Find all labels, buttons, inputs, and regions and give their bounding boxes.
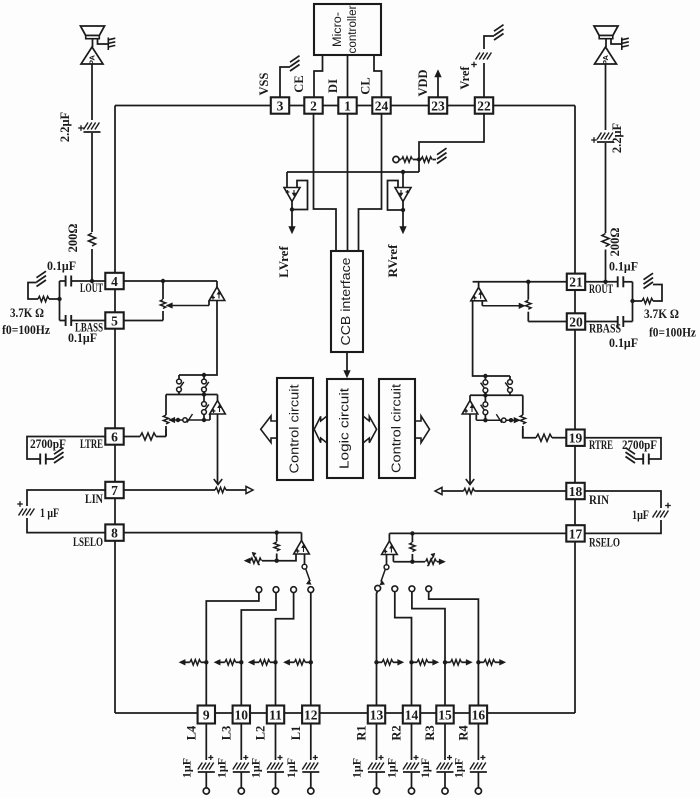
capacitor 1uF left: [19, 509, 24, 516]
junction: [509, 418, 513, 422]
arrow mix: [284, 660, 290, 665]
wire cap to terminal: [240, 772, 242, 788]
ground at 3.7K right: [644, 282, 654, 289]
wire: [509, 376, 511, 380]
wire LVref buffer input stub: [286, 172, 288, 188]
wire: [428, 661, 433, 663]
capacitor 0.1uF ROUT: [617, 276, 619, 287]
wire pin18 to 1uF: [585, 491, 661, 508]
pin 19 RTRE: [566, 430, 584, 446]
contact L4: [256, 587, 262, 593]
svg-text:L3: L3: [219, 726, 233, 741]
capacitor 1uF R1: [368, 763, 373, 770]
wire pin20 to pot right: [528, 321, 567, 323]
wire pin7 to 1uF: [27, 490, 105, 506]
wire op-amp input stub: [216, 281, 218, 287]
junction wiper right: [483, 418, 487, 422]
arrow CCB to logic: [344, 371, 350, 378]
svg-text:7: 7: [111, 483, 118, 498]
wire CL to CCB: [359, 114, 382, 251]
wire cap to terminal: [275, 772, 277, 788]
CCB interface box: [331, 251, 363, 352]
wire: [393, 661, 398, 663]
op-amp LVref buffer: [284, 188, 300, 202]
junction ROUT speaker: [603, 280, 607, 284]
wire top bus: [115, 105, 575, 107]
switch left D: [183, 418, 187, 422]
wire fader out right: [469, 414, 471, 483]
pin 2 CE: [304, 97, 322, 113]
junction LVref output: [290, 207, 294, 211]
arrow RVref: [400, 227, 406, 234]
wire: [165, 429, 167, 437]
op-amp RSELO: [382, 541, 398, 555]
junction: [374, 660, 378, 664]
switch right A: [508, 380, 513, 385]
wire PA to cap right: [605, 64, 607, 130]
switch right D: [502, 418, 506, 422]
wire 1uF to pin17: [585, 520, 661, 533]
contact L3: [273, 587, 279, 593]
wire resistor to ground: [28, 283, 38, 300]
arrow gain left: [245, 558, 251, 563]
pin 23 VDD: [429, 97, 447, 113]
pin 11 L2: [267, 706, 284, 724]
terminal L3: [238, 788, 244, 794]
junction: [239, 660, 243, 664]
wire pin6 to 2700pF: [27, 437, 105, 460]
resistor divider left: [402, 157, 413, 162]
svg-text:Logic circuit: Logic circuit: [337, 388, 352, 469]
pin 12 L1: [302, 706, 319, 724]
svg-text:3.7K Ω: 3.7K Ω: [10, 305, 44, 320]
wire pin19 to 2700pF: [585, 438, 661, 459]
wire pin22 up: [483, 63, 485, 97]
svg-text:20: 20: [569, 314, 583, 329]
contact R3: [409, 586, 415, 592]
wire: [178, 392, 180, 395]
junction: [202, 392, 206, 396]
wire RVref buffer input stub: [402, 172, 404, 188]
micro-controller box U2: [314, 4, 381, 55]
arrow mix right: [500, 660, 506, 665]
pin 16 R4: [470, 706, 487, 724]
block arrow far left: [261, 416, 278, 443]
junction: [410, 531, 414, 535]
wire pot bottom: [162, 311, 164, 321]
op-amp LSELO: [294, 541, 310, 555]
wire cap common right: [632, 282, 634, 322]
wire pin to cap: [477, 724, 479, 761]
svg-text:16: 16: [472, 707, 486, 722]
switch left C: [202, 402, 207, 407]
wiper arrow bass left: [167, 303, 173, 308]
svg-text:1μF: 1μF: [284, 758, 298, 778]
selector switch left: [302, 564, 307, 569]
wiper arrow fader left: [169, 417, 175, 422]
pin 4 LOUT: [105, 273, 123, 289]
svg-text:6: 6: [111, 429, 118, 444]
wire pin22 to divider: [419, 114, 484, 172]
wire wiper to op-amp: [208, 301, 210, 306]
junction buffer R input: [401, 170, 405, 174]
junction: [204, 660, 208, 664]
svg-text:RVref: RVref: [385, 244, 400, 278]
junction switch: [202, 373, 206, 377]
svg-text:19: 19: [569, 431, 583, 446]
wire: [262, 555, 296, 561]
svg-text:0.1μF: 0.1μF: [47, 258, 76, 273]
wire pin5 to pot: [124, 320, 163, 322]
wire pin to cap: [275, 724, 277, 761]
wire pin to cap: [444, 724, 446, 761]
wire: [437, 561, 443, 563]
wire pin20 to cap: [585, 321, 618, 323]
arrow fader left: [214, 479, 222, 485]
arrow mix: [214, 660, 220, 665]
wire LSELO output: [304, 554, 306, 565]
arrow mix right: [466, 660, 472, 665]
wire RVref feedback: [388, 181, 404, 211]
svg-text:18: 18: [569, 484, 583, 499]
junction LOUT speaker: [90, 279, 94, 283]
svg-text:11: 11: [269, 707, 282, 722]
svg-text:LTRE: LTRE: [80, 436, 103, 451]
op-amp RVref buffer: [395, 188, 411, 202]
wire: [203, 395, 205, 403]
wire op-amp out to switches right: [473, 301, 510, 377]
svg-text:LSELO: LSELO: [73, 534, 103, 549]
wire: [495, 661, 500, 663]
wire DI to microcontroller: [347, 55, 349, 98]
resistor mix: [190, 660, 201, 665]
wire CCB to logic: [346, 352, 348, 372]
wire PA to cap: [91, 64, 93, 120]
logic circuit box: [327, 379, 363, 478]
wire cap to terminal: [444, 772, 446, 788]
ground at divider: [437, 157, 447, 164]
plus 2.2uF left: [78, 127, 84, 129]
wire pin to cap: [411, 724, 413, 761]
svg-text:5: 5: [111, 313, 118, 328]
svg-text:CE: CE: [292, 75, 306, 92]
wire: [411, 533, 413, 542]
junction RVref output: [401, 208, 405, 212]
wire: [226, 489, 246, 491]
resistor mix right: [382, 660, 393, 665]
wire: [49, 298, 60, 300]
svg-text:RIN: RIN: [589, 492, 610, 507]
selector switch right: [384, 565, 389, 570]
wire: [60, 320, 66, 322]
wire: [185, 661, 190, 663]
svg-text:1μF: 1μF: [179, 758, 193, 778]
junction pot top right: [526, 280, 530, 284]
wire: [289, 661, 294, 663]
op-amp fader right: [462, 401, 478, 415]
svg-text:L1: L1: [289, 726, 303, 741]
pin 5 LBASS: [105, 312, 123, 328]
wire cap to terminal: [310, 772, 312, 788]
wire pot stub right: [522, 395, 524, 415]
svg-text:2.2μF: 2.2μF: [610, 122, 624, 153]
junction: [483, 393, 487, 397]
wire pin to cap: [376, 724, 378, 761]
ground at right speaker: [621, 38, 623, 51]
svg-text:23: 23: [431, 98, 445, 113]
wire: [484, 415, 486, 421]
speaker left: [81, 26, 105, 36]
potentiometer bass right: [526, 300, 531, 309]
wire: [469, 395, 471, 400]
wire fader out left: [217, 414, 219, 483]
pin 20 RBASS: [567, 313, 585, 329]
junction 3.7K right: [630, 299, 634, 303]
wire: [445, 661, 451, 663]
pin 6 LTRE: [105, 428, 123, 444]
wire cap to pin4: [71, 280, 105, 282]
wire DI to CCB: [347, 114, 349, 251]
terminal L4: [203, 788, 209, 794]
wire cap to terminal: [411, 772, 413, 788]
wire: [484, 395, 486, 402]
resistor mix right: [451, 660, 462, 665]
switch right B: [483, 380, 488, 385]
wire: [305, 661, 311, 663]
svg-text:1: 1: [344, 98, 351, 113]
block arrow logic to left control: [314, 416, 327, 443]
junction pot top: [161, 279, 165, 283]
wire contact to pin9: [206, 592, 259, 704]
wire switch common left: [166, 394, 218, 396]
wire CE to microcontroller: [314, 55, 323, 98]
wire pin21 to cap: [585, 281, 618, 283]
capacitor 1uF L2: [267, 763, 272, 770]
pin 17 RSELO: [566, 525, 584, 541]
wire pin to cap: [205, 724, 207, 761]
potentiometer bass left: [160, 300, 165, 309]
junction divider: [417, 157, 421, 161]
wire: [442, 490, 464, 492]
resistor LSELO: [274, 542, 279, 551]
svg-text:R1: R1: [355, 725, 369, 740]
wire wiper to op-amp right: [481, 301, 483, 306]
pin 18 RIN: [566, 483, 584, 499]
junction: [176, 418, 180, 422]
wire: [165, 426, 167, 437]
capacitor 1uF R2: [403, 763, 408, 770]
arrow gain right: [439, 559, 445, 564]
wire: [509, 392, 511, 395]
wire pin17 to op-amp: [389, 532, 566, 534]
wire: [393, 561, 425, 563]
wire: [392, 555, 394, 562]
contact R2: [392, 586, 398, 592]
resistor mix right: [484, 660, 495, 665]
resistor mix: [225, 660, 236, 665]
wire: [178, 375, 180, 379]
svg-text:1μF: 1μF: [249, 758, 263, 778]
svg-text:0.1μF: 0.1μF: [68, 330, 97, 345]
svg-text:R3: R3: [423, 725, 437, 740]
wire cap to resistor right: [605, 143, 607, 233]
contact L1: [308, 587, 314, 593]
open arrow volume right: [435, 487, 442, 494]
svg-text:f0=100Hz: f0=100Hz: [2, 323, 50, 337]
wire op-amp input stub right: [478, 282, 480, 288]
resistor divider right: [421, 157, 432, 162]
arrow mix: [249, 660, 255, 665]
svg-text:PA: PA: [601, 54, 610, 64]
wire cap to terminal: [205, 772, 207, 788]
resistor mix right: [417, 660, 428, 665]
wire pin8 to op-amp: [124, 532, 302, 534]
wire wiper to fader op-amp right: [475, 415, 477, 421]
svg-text:8: 8: [111, 525, 118, 540]
ground at Vref: [494, 34, 504, 41]
pin 15 R3: [436, 706, 453, 724]
svg-text:Control circuit: Control circuit: [389, 384, 404, 473]
svg-text:0.1μF: 0.1μF: [609, 335, 638, 350]
svg-text:10: 10: [235, 707, 249, 722]
wire cap to terminal: [477, 772, 479, 788]
pin 1 DI: [338, 97, 356, 113]
wire: [220, 661, 225, 663]
wire pot bottom right: [527, 312, 529, 322]
pin 8 LSELO: [105, 524, 123, 540]
capacitor 0.1uF LOUT: [65, 276, 67, 287]
wire cap to pin5: [71, 320, 105, 322]
svg-text:RTRE: RTRE: [589, 437, 613, 452]
resistor mix: [294, 660, 305, 665]
wire pot top: [162, 281, 164, 299]
wire: [433, 159, 437, 161]
arrow mix right: [398, 660, 404, 665]
contact R1: [375, 585, 381, 591]
wire RSELO output: [386, 554, 388, 565]
wire: [246, 560, 250, 562]
wire: [484, 393, 486, 396]
wire CE to CCB: [314, 114, 337, 251]
potentiometer fader right: [520, 415, 525, 424]
open arrow volume left: [246, 486, 253, 493]
svg-text:Control circuit: Control circuit: [287, 384, 302, 473]
pin 13 R1: [368, 706, 385, 724]
svg-text:ROUT: ROUT: [589, 281, 613, 296]
svg-text:PA: PA: [88, 54, 97, 64]
wire pot stub: [165, 395, 167, 416]
svg-text:1μF: 1μF: [418, 758, 432, 778]
svg-text:LVref: LVref: [276, 246, 291, 278]
junction wiper: [202, 418, 206, 422]
svg-text:1μF: 1μF: [451, 758, 465, 778]
contact R4: [426, 586, 432, 592]
capacitor 1uF L3: [233, 763, 238, 770]
pin 9 L4: [198, 706, 215, 724]
contact L2: [291, 587, 297, 593]
resistor LTRE: [140, 433, 156, 440]
terminal R1: [373, 788, 379, 794]
svg-text:CL: CL: [359, 77, 373, 94]
svg-text:1μF: 1μF: [385, 758, 399, 778]
wiper arrow bass right: [519, 303, 525, 308]
plus Vref: [471, 64, 477, 66]
svg-text:f0=100Hz: f0=100Hz: [649, 326, 696, 340]
wire: [301, 533, 303, 541]
plus 1uF right: [665, 505, 671, 507]
svg-text:2700pF: 2700pF: [30, 436, 66, 451]
block arrow logic to right control: [363, 416, 377, 443]
resistor RSELO: [410, 543, 415, 552]
wire pin18 volume line: [475, 490, 567, 492]
junction: [273, 660, 277, 664]
junction: [476, 660, 480, 664]
wire pin19 left: [552, 437, 566, 439]
wire pin4 to op-amp: [124, 280, 217, 282]
svg-text:17: 17: [569, 526, 583, 541]
wire resistor to LOUT: [91, 249, 93, 281]
resistor 3.7K right: [642, 298, 653, 303]
svg-text:Micro-: Micro-: [332, 12, 344, 47]
wire resistor to ROUT: [605, 250, 607, 282]
svg-text:RBASS: RBASS: [589, 321, 621, 336]
svg-text:R2: R2: [390, 725, 404, 740]
terminal R3: [442, 788, 448, 794]
arrow LVref: [289, 227, 295, 234]
resistor gain left: [251, 558, 262, 563]
svg-text:LIN: LIN: [85, 491, 103, 506]
svg-text:controller: controller: [347, 5, 359, 53]
wire: [270, 661, 276, 663]
wire speaker to PA: [92, 39, 94, 47]
capacitor 0.1uF LBASS: [65, 315, 67, 326]
svg-text:LOUT: LOUT: [80, 280, 103, 295]
wire bottom bus: [115, 712, 575, 714]
wire: [217, 395, 219, 401]
wire: [413, 159, 421, 161]
resistor RTRE: [536, 434, 552, 441]
wire contact to pin14: [395, 591, 412, 704]
capacitor 2700pF right: [642, 454, 644, 465]
wiper arrow fader right: [514, 418, 520, 423]
wire RVref output: [402, 202, 404, 229]
arrow mix: [179, 660, 185, 665]
wire: [276, 533, 278, 542]
speaker right: [594, 26, 618, 36]
svg-text:22: 22: [477, 98, 491, 113]
wire: [388, 533, 390, 541]
svg-text:DI: DI: [326, 79, 340, 93]
wire: [462, 661, 467, 663]
svg-text:1μF: 1μF: [632, 507, 649, 522]
capacitor Vref: [476, 53, 481, 60]
junction: [275, 530, 279, 534]
junction: [483, 374, 487, 378]
wire wiper to fader op-amp: [209, 415, 211, 421]
wire: [412, 661, 418, 663]
block arrow far right: [415, 416, 430, 443]
svg-text:RSELO: RSELO: [589, 535, 620, 550]
svg-text:200Ω: 200Ω: [66, 224, 80, 253]
capacitor 1uF L1: [302, 763, 307, 770]
op-amp fader left: [210, 401, 226, 415]
junction 3.7K: [57, 297, 61, 301]
svg-text:CCB interface: CCB interface: [338, 258, 353, 346]
wire: [46, 458, 54, 460]
capacitor 2.2uF right: [597, 133, 602, 140]
wire buffer input line: [287, 171, 419, 173]
wire contact to pin11: [276, 592, 294, 704]
